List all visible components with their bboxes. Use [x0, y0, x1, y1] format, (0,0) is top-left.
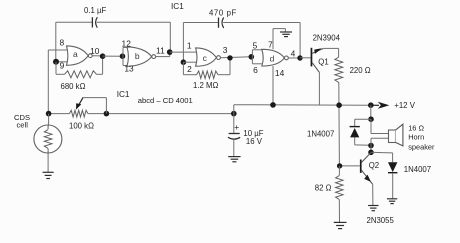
- svg-text:c: c: [203, 53, 208, 63]
- svg-text:6: 6: [253, 65, 258, 75]
- svg-text:9: 9: [60, 61, 65, 71]
- svg-text:speaker: speaker: [408, 142, 435, 151]
- svg-text:b: b: [135, 51, 140, 61]
- svg-text:2N3055: 2N3055: [367, 216, 395, 225]
- svg-text:16 Ω: 16 Ω: [408, 123, 424, 132]
- svg-text:14: 14: [275, 68, 285, 78]
- svg-text:IC1: IC1: [171, 2, 184, 11]
- svg-text:+12 V: +12 V: [394, 101, 415, 110]
- svg-text:+: +: [234, 122, 239, 132]
- svg-text:0.1 µF: 0.1 µF: [84, 6, 106, 15]
- svg-text:220 Ω: 220 Ω: [350, 66, 371, 75]
- svg-text:abcd – CD 4001: abcd – CD 4001: [138, 96, 193, 105]
- svg-text:1N4007: 1N4007: [404, 165, 431, 174]
- svg-text:12: 12: [122, 39, 132, 49]
- svg-text:IC1: IC1: [117, 90, 130, 99]
- svg-text:2N3904: 2N3904: [313, 33, 341, 42]
- svg-text:470 pF: 470 pF: [209, 8, 237, 17]
- svg-text:10: 10: [90, 46, 100, 56]
- svg-text:3: 3: [223, 45, 228, 55]
- svg-text:11: 11: [156, 46, 165, 56]
- svg-text:13: 13: [124, 64, 134, 74]
- svg-text:1N4007: 1N4007: [307, 130, 334, 139]
- svg-text:8: 8: [59, 37, 64, 47]
- svg-text:1: 1: [187, 40, 192, 50]
- svg-text:1.2 MΩ: 1.2 MΩ: [193, 81, 218, 90]
- svg-text:100 kΩ: 100 kΩ: [69, 121, 94, 130]
- svg-text:82 Ω: 82 Ω: [315, 184, 332, 193]
- svg-text:cell: cell: [17, 120, 29, 129]
- svg-text:Q2: Q2: [369, 161, 379, 170]
- svg-text:5: 5: [253, 40, 258, 50]
- svg-text:2: 2: [187, 64, 192, 74]
- svg-text:16 V: 16 V: [246, 137, 263, 146]
- svg-text:Q1: Q1: [318, 58, 328, 67]
- svg-text:Horn: Horn: [408, 132, 424, 141]
- svg-text:a: a: [73, 49, 78, 59]
- svg-text:7: 7: [268, 39, 273, 49]
- svg-text:4: 4: [291, 49, 296, 59]
- svg-text:d: d: [270, 53, 275, 63]
- svg-text:680 kΩ: 680 kΩ: [61, 82, 86, 91]
